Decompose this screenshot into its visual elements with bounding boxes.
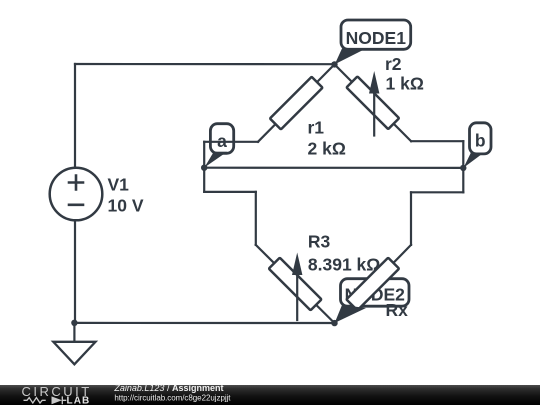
- wire right shelf horizontal: [411, 191, 463, 193]
- resistor R3 body: [269, 258, 322, 311]
- svg-text:V1: V1: [108, 175, 130, 195]
- node NODE2 pointer: [335, 305, 366, 323]
- svg-text:NODE1: NODE1: [346, 28, 407, 48]
- svg-text:r2: r2: [385, 54, 402, 74]
- junction dot NODE1: [331, 61, 337, 67]
- circuitlab logo: [22, 384, 92, 405]
- wire a vertical lower: [203, 168, 205, 192]
- junction dot ground: [71, 320, 77, 326]
- wire b horizontal: [411, 140, 463, 142]
- wire top horizontal: [75, 63, 335, 65]
- node b label: [464, 123, 492, 168]
- svg-text:b: b: [475, 131, 486, 151]
- svg-text:Rx: Rx: [386, 300, 409, 320]
- node NODE1 label: [335, 20, 411, 64]
- footer bar: [0, 385, 540, 405]
- svg-text:R3: R3: [308, 232, 331, 252]
- wire a vertical upper: [203, 142, 205, 168]
- svg-text:Zainab.L123 / Assignment: Zainab.L123 / Assignment: [113, 383, 223, 393]
- wire top left vertical: [74, 64, 76, 168]
- svg-text:10 V: 10 V: [108, 196, 144, 216]
- r2 wiper arrow: [369, 71, 379, 136]
- node a pointer: [204, 152, 227, 168]
- node a label box: [210, 124, 233, 154]
- wire left drop vertical: [255, 192, 257, 245]
- R3 wiper arrow: [292, 253, 302, 321]
- wire r2 diagonal: [335, 64, 412, 141]
- wire V1 bottom vertical: [74, 220, 76, 323]
- wire a horizontal: [204, 141, 258, 143]
- wire bottom horizontal: [74, 322, 334, 324]
- junction dot a: [201, 165, 207, 171]
- svg-text:LAB: LAB: [67, 395, 91, 405]
- resistor r1 body: [270, 77, 323, 130]
- junction dot NODE2: [331, 320, 337, 326]
- wire bridge a-b: [204, 167, 463, 169]
- wire b vertical upper: [462, 141, 464, 168]
- wire left shelf horizontal: [204, 191, 256, 193]
- voltage source V1: [50, 168, 103, 221]
- svg-text:r1: r1: [308, 118, 325, 138]
- ground: [53, 323, 95, 364]
- junction dot b: [460, 165, 466, 171]
- resistor r2 body: [346, 76, 399, 129]
- wire R3 diagonal: [256, 245, 335, 323]
- wire r1 diagonal: [258, 64, 335, 141]
- svg-text:http://circuitlab.com/c8ge22uj: http://circuitlab.com/c8ge22ujzpjjt: [114, 393, 231, 402]
- resistor Rx body: [346, 258, 399, 311]
- svg-text:2 kΩ: 2 kΩ: [308, 139, 346, 159]
- footer title text: [113, 383, 231, 403]
- wire right drop vertical: [410, 192, 412, 245]
- wire Rx diagonal: [335, 245, 412, 323]
- node NODE2 label: [341, 279, 410, 307]
- wire b vertical lower: [462, 168, 464, 192]
- svg-text:1 kΩ: 1 kΩ: [386, 74, 424, 94]
- svg-text:8.391 kΩ: 8.391 kΩ: [308, 255, 380, 275]
